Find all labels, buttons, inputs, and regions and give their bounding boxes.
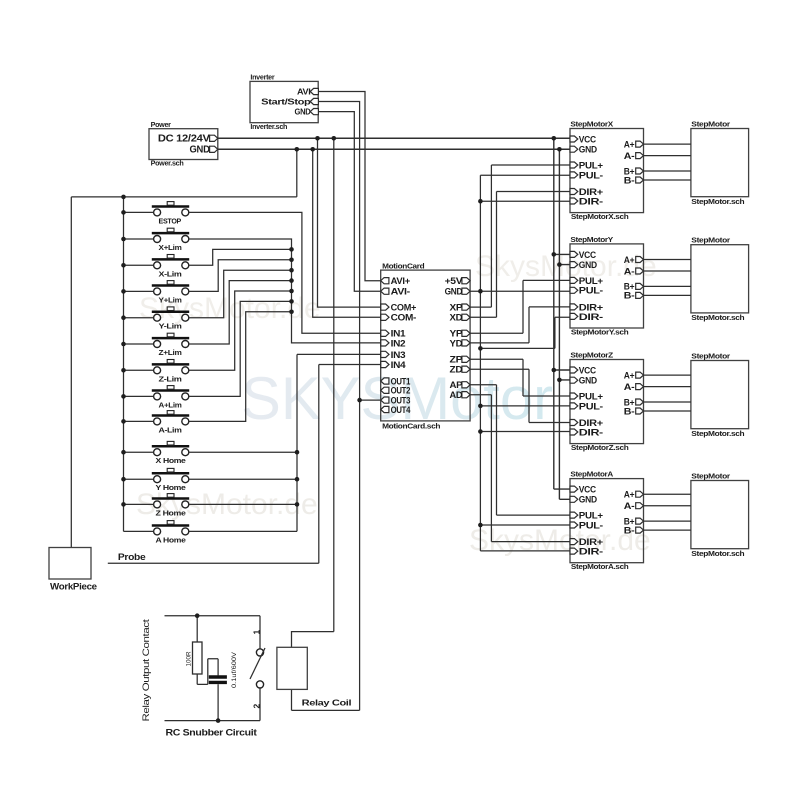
pin COM- (MotionCard) [381,313,416,324]
wire Start/Stop to OUT3 and relay coil [292,102,381,711]
switch Z+Lim [152,333,189,357]
switch X-Lim [152,255,189,279]
svg-text:A-: A- [624,501,635,511]
pin ZD (MotionCard) [450,365,471,376]
svg-text:B-: B- [624,525,635,535]
svg-text:100R: 100R [186,651,193,666]
wire Z PUL- feed [480,405,570,407]
svg-text:+5V: +5V [445,276,464,287]
wire YP to Y PUL+ [470,280,570,333]
relay contact switch [250,648,265,688]
svg-text:A+: A+ [624,255,635,265]
svg-text:DIR-: DIR- [579,427,603,438]
pin A+ (StepMotorY) [624,255,644,265]
pin B+ (StepMotorX) [624,166,644,176]
pin YP (MotionCard) [450,329,471,340]
wire AVI to AVI+ [318,92,381,281]
pin VCC (StepMotorA) [570,485,596,496]
svg-text:StepMotor.sch: StepMotor.sch [691,549,744,558]
svg-text:0.1uf/600V: 0.1uf/600V [231,652,238,688]
svg-text:ZD: ZD [450,365,463,376]
junction switch rail [121,195,126,200]
wire GND to switch common rail [71,149,296,547]
svg-text:A+: A+ [624,490,635,500]
motor block StepMotor (X axis) [691,120,749,206]
pin PUL- (StepMotorA) [570,520,603,531]
pin AD (MotionCard) [450,390,471,401]
svg-text:GND: GND [579,495,597,506]
pin PUL+ (StepMotorX) [570,160,604,171]
switch Y+Lim [152,281,189,305]
wire A motor phases A+/A-/B+/B- [644,494,691,530]
switch Y-Lim [152,307,189,331]
svg-text:XD: XD [450,313,463,324]
pin GND (StepMotorA) [570,495,597,506]
svg-text:StepMotor.sch: StepMotor.sch [691,429,744,438]
wire Y motor phases A+/A-/B+/B- [644,260,691,296]
svg-text:A-: A- [624,266,635,276]
wire X DIR- feed [480,200,570,202]
svg-text:AVI-: AVI- [391,287,410,298]
pin OUT3 (MotionCard) [381,396,411,407]
svg-text:A+: A+ [624,139,635,149]
pin DIR+ (StepMotorZ) [570,418,604,429]
pin OUT1 (MotionCard) [381,376,411,387]
svg-text:MotionCard.sch: MotionCard.sch [382,421,440,430]
svg-text:YD: YD [450,338,463,349]
svg-text:Y Home: Y Home [156,483,186,492]
pin GND (StepMotorZ) [570,376,597,387]
svg-text:AVI: AVI [297,87,311,97]
svg-text:IN4: IN4 [391,360,407,371]
switch A+Lim [152,386,189,410]
pin AVI+ (MotionCard) [381,276,411,287]
switch X Home [152,441,189,465]
switch X+Lim [152,228,189,252]
pin VCC (StepMotorY) [570,250,596,261]
pin DIR- (StepMotorA) [570,547,603,558]
pin OUT2 (MotionCard) [381,386,411,397]
svg-text:Power: Power [151,120,172,129]
svg-text:GND: GND [445,287,463,298]
motor block StepMotor (Z axis) [691,352,749,438]
svg-text:Start/Stop: Start/Stop [261,97,310,107]
wire XD to X DIR+ [470,192,570,318]
wire X PUL- feed [480,174,570,176]
pin PUL- (StepMotorX) [570,170,603,181]
motor block StepMotor (Y axis) [691,236,749,322]
pin GND (StepMotorY) [570,260,597,271]
wire ZD to Z DIR+ [470,369,570,422]
wire relay contact bottom terminal [165,688,261,721]
driver block StepMotorY [570,235,644,337]
svg-text:Z Home: Z Home [156,508,186,517]
pin DIR+ (StepMotorX) [570,187,604,198]
pin A- (StepMotorZ) [624,382,644,392]
relay coil [277,647,351,707]
svg-text:StepMotor: StepMotor [691,352,730,361]
wire A+Lim to limit bus [189,301,292,396]
switch A-Lim [152,411,189,435]
driver block StepMotorA [570,470,644,572]
svg-text:Relay Output Contact: Relay Output Contact [141,619,151,722]
wire GND to COM- [313,149,381,317]
pin DC 12/24V [210,135,218,141]
pin IN4 (MotionCard) [381,360,407,371]
wire AP to A PUL+ [470,385,570,515]
wire Y DIR- feed [480,317,570,348]
svg-text:B-: B- [624,175,635,185]
svg-text:B-: B- [624,291,635,301]
wire MotionCard GND to Y PUL- [470,290,570,292]
wire GND rail [218,148,570,150]
wire relay contact top terminal [165,616,261,649]
svg-text:StepMotorX.sch: StepMotorX.sch [571,212,629,221]
svg-text:Z-Lim: Z-Lim [159,374,183,383]
svg-text:A-: A- [624,151,635,161]
svg-text:IN2: IN2 [391,338,406,349]
pin IN2 (MotionCard) [381,338,406,349]
pin A+ (StepMotorZ) [624,370,644,380]
pin AVI- (MotionCard) [381,287,410,298]
svg-text:Probe: Probe [118,552,146,563]
wire home switches bus to IN3 [189,354,381,531]
pin DIR+ (StepMotorY) [570,302,604,313]
pin VCC (StepMotorZ) [570,365,596,376]
pin IN3 (MotionCard) [381,350,406,361]
pin A- (StepMotorX) [624,151,644,161]
wire DC to COM+ [318,138,381,307]
pin B+ (StepMotorY) [624,282,644,292]
wire A-Lim to limit bus [189,312,292,422]
wire limit switches bus to IN2 [189,239,381,343]
pin ZP (MotionCard) [450,355,471,366]
wire DC to relay coil (+) [292,138,334,647]
svg-text:2: 2 [252,704,262,709]
wire Z+Lim to limit bus [189,281,292,344]
resistor R 100R [186,616,219,685]
svg-text:X+Lim: X+Lim [159,243,183,252]
junction limit bus [289,247,294,252]
pin XP (MotionCard) [450,303,471,314]
wire DC 12/24V rail [218,137,570,139]
driver block StepMotorZ [570,351,644,453]
svg-text:StepMotor.sch: StepMotor.sch [691,197,744,206]
svg-text:AD: AD [450,390,463,401]
pin OUT4 (MotionCard) [381,405,411,416]
pin COM+ (MotionCard) [381,303,417,314]
svg-text:A-Lim: A-Lim [159,425,183,434]
pin VCC (StepMotorX) [570,134,596,145]
pin PUL- (StepMotorZ) [570,401,603,412]
svg-text:WorkPiece: WorkPiece [50,582,97,592]
wire Z-Lim to limit bus [189,291,292,370]
svg-text:OUT4: OUT4 [391,405,411,416]
switch Z-Lim [152,360,189,384]
junction GND rail taps [295,147,300,152]
power supply block Power [149,120,218,168]
switch A Home [152,521,189,545]
svg-text:GND: GND [579,145,597,156]
pin +5V (MotionCard) [445,276,471,287]
svg-text:DIR-: DIR- [579,312,603,323]
svg-text:A+Lim: A+Lim [159,400,183,409]
pin B- (StepMotorY) [624,291,644,301]
junction DC rail taps [315,136,320,141]
svg-text:A+: A+ [624,370,635,380]
svg-text:DIR-: DIR- [579,547,603,558]
pin DIR- (StepMotorY) [570,312,603,323]
switch Z Home [152,494,189,518]
wire Z DIR- feed [480,431,570,433]
svg-text:StepMotorZ.sch: StepMotorZ.sch [571,443,629,452]
pin PUL- (StepMotorY) [570,286,603,297]
pin B- (StepMotorA) [624,525,644,535]
motor block StepMotor (A axis) [691,472,749,558]
wire A DIR- feed [480,550,570,552]
switch ESTOP [152,202,189,226]
junction GND feed rail [478,199,483,204]
wire GND rail to driver GND pins [559,149,570,499]
pin DIR- (StepMotorX) [570,196,603,207]
svg-text:StepMotorX: StepMotorX [570,120,613,129]
svg-text:PUL-: PUL- [579,401,603,412]
pin DIR- (StepMotorZ) [570,427,603,438]
wire ZP to Z PUL+ [470,359,570,396]
junction snubber taps [195,613,200,618]
svg-text:GND: GND [579,376,597,387]
switch Y Home [152,468,189,492]
wire +V rail to driver VCC pins [554,138,570,489]
wire YD to Y DIR+ [470,307,570,343]
junction Start/Stop-OUT3 [357,398,362,403]
svg-text:DIR-: DIR- [579,196,603,207]
controller block MotionCard [381,262,470,431]
wire probe to IN4 [108,365,381,564]
pin XD (MotionCard) [450,313,471,324]
pin GND (MotionCard) [445,287,471,298]
svg-text:StepMotor: StepMotor [691,236,730,245]
pin AVI [310,88,318,94]
svg-text:AVI+: AVI+ [391,276,411,287]
pin YD (MotionCard) [450,338,471,349]
svg-text:Inverter.sch: Inverter.sch [250,122,287,131]
wire inverter GND to AVI- [318,112,381,292]
junction home bus [295,450,300,455]
pin A- (StepMotorY) [624,266,644,276]
wire AD to A DIR+ [470,395,570,542]
svg-text:StepMotor: StepMotor [691,120,730,129]
svg-text:RC Snubber Circuit: RC Snubber Circuit [166,728,257,738]
svg-text:PUL-: PUL- [579,286,603,297]
wire X-Lim to limit bus [189,249,292,265]
pin PUL+ (StepMotorA) [570,511,604,522]
svg-text:Y+Lim: Y+Lim [159,295,183,304]
wire A PUL- feed [480,524,570,526]
wire X motor phases A+/A-/B+/B- [644,144,691,180]
svg-text:Relay Coil: Relay Coil [302,697,352,707]
svg-text:GND: GND [190,144,211,156]
pin GND (inverter) [310,109,318,115]
svg-text:StepMotorA: StepMotorA [570,470,613,479]
inverter block Inverter [250,72,318,131]
svg-text:Inverter: Inverter [250,72,274,81]
svg-text:StepMotorA.sch: StepMotorA.sch [571,562,629,571]
svg-text:Power.sch: Power.sch [151,158,184,167]
wire switch rail stubs [124,212,154,531]
svg-text:StepMotorY.sch: StepMotorY.sch [571,328,629,337]
pin PUL+ (StepMotorY) [570,276,604,287]
svg-text:GND: GND [295,107,311,117]
wire XP to X PUL+ [470,165,570,307]
pin A+ (StepMotorX) [624,139,644,149]
pin B+ (StepMotorZ) [624,397,644,407]
pin GND (StepMotorX) [570,145,597,156]
svg-text:StepMotor.sch: StepMotor.sch [691,313,744,322]
wire ESTOP to IN1 [189,212,381,333]
svg-text:B-: B- [624,406,635,416]
pin IN1 (MotionCard) [381,329,407,340]
svg-text:MotionCard: MotionCard [382,262,424,271]
pin B- (StepMotorX) [624,175,644,185]
svg-text:A Home: A Home [156,535,186,544]
pin DIR+ (StepMotorA) [570,537,604,548]
svg-text:1: 1 [252,630,262,635]
pin A+ (StepMotorA) [624,490,644,500]
pin B+ (StepMotorA) [624,516,644,526]
svg-text:Y-Lim: Y-Lim [159,322,183,331]
pin Start/Stop [310,98,318,104]
svg-text:COM-: COM- [391,313,417,324]
wire Y+Lim to limit bus [189,260,292,292]
svg-text:ESTOP: ESTOP [159,216,182,225]
svg-text:PUL-: PUL- [579,170,603,181]
pin B- (StepMotorZ) [624,406,644,416]
svg-text:X-Lim: X-Lim [159,269,183,278]
svg-text:Z+Lim: Z+Lim [159,348,183,357]
pin AP (MotionCard) [450,380,471,391]
driver block StepMotorX [570,120,644,222]
wire Z motor phases A+/A-/B+/B- [644,375,691,411]
capacitor C 0.1uf/600V [209,652,238,721]
pin A- (StepMotorA) [624,501,644,511]
block WorkPiece [49,548,97,592]
wire GND feed rail [479,175,481,551]
svg-text:StepMotor: StepMotor [691,472,730,481]
wire Y-Lim to limit bus [189,270,292,318]
svg-text:PUL-: PUL- [579,520,603,531]
pin PUL+ (StepMotorZ) [570,391,604,402]
svg-text:A-: A- [624,382,635,392]
svg-text:GND: GND [579,260,597,271]
svg-text:StepMotorY: StepMotorY [570,235,613,244]
svg-text:X Home: X Home [156,456,186,465]
pin GND (power) [210,146,218,152]
svg-text:StepMotorZ: StepMotorZ [570,351,614,360]
